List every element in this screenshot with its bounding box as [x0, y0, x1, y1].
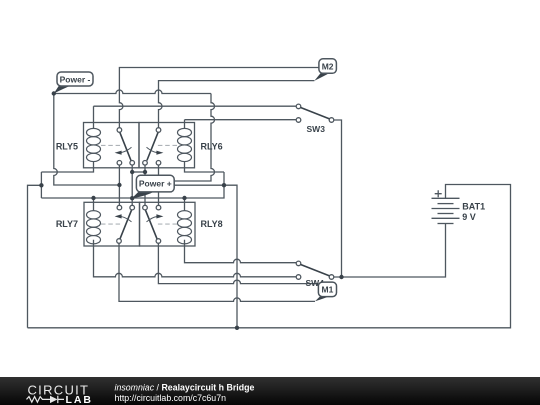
wire Power+ L1 left segment y=172 RLY5 coil bottom, hop over x=53.8 — [41, 162, 93, 172]
svg-text:M1: M1 — [321, 285, 333, 295]
footer CircuitLab logo — [28, 383, 92, 405]
svg-text:RLY7: RLY7 — [56, 219, 78, 229]
relay RLY5 dashed link — [101, 144, 122, 146]
wire RLY8 coil top pin to rail3 — [184, 198, 186, 211]
relay RLY6 box — [139, 123, 195, 168]
junction node RLY8 coil top on rail3 — [182, 196, 186, 200]
wire Power+ L1 mid segment y=172 — [132, 165, 145, 205]
footer logo resistor and diode glyph — [27, 396, 65, 403]
flag Power+ — [132, 175, 174, 198]
svg-text:RLY6: RLY6 — [201, 142, 223, 152]
switch SW3 — [296, 104, 334, 122]
relay RLY5 actuation arrow — [115, 147, 132, 155]
relay RLY6 coil — [178, 128, 192, 161]
relay RLY8 coil — [178, 211, 192, 244]
junction node battery minus to switch commons — [339, 275, 343, 279]
relay RLY6 dashed link — [157, 144, 178, 146]
junction node Power+ L1 at x=132 — [130, 170, 134, 174]
wire Power+ stub to outer loop x=28 — [28, 185, 42, 327]
flag M1 — [315, 282, 337, 301]
wire M2 net: RLY6 common up to y=80.5 then right to M2 tail — [159, 81, 315, 128]
junction node Power+ L1 at x=145 — [143, 170, 147, 174]
relay RLY7 terminals — [117, 205, 135, 243]
wire Power+ rail3 y=199 bottom rail of middle band — [41, 172, 224, 198]
relay RLY5 box — [84, 123, 140, 168]
junction node Power+ right ladder — [222, 183, 226, 187]
svg-text:9 V: 9 V — [462, 212, 476, 222]
switch SW4 — [296, 261, 334, 279]
wire SW3 common to junction x=341.5 — [334, 120, 342, 277]
wire RLY7 coil top pin to rail3 — [93, 198, 95, 211]
relay RLY8 actuation arrow — [147, 214, 164, 222]
wire RLY6 coil top to SW3 bottom throw y=119.7 — [185, 120, 297, 129]
relay RLY5 switch arm — [120, 132, 131, 160]
wire battery minus y=277 — [334, 224, 446, 278]
relay RLY8 box — [140, 202, 196, 246]
wire RLY8 common to M1 flag edge y=283.6, hop over x=237 — [158, 243, 318, 283]
relay RLY7 coil — [87, 211, 101, 244]
relay RLY8 terminals — [143, 205, 161, 243]
footer bar — [0, 377, 540, 405]
wire RLY8 coil bottom to SW4 top throw y=262.7, hop over x=237 — [185, 240, 297, 263]
wire M2 net: RLY5 common up to y=67.5 then right to M2 flag — [119, 68, 319, 128]
wire throw chain x=158.5 RLY6 to RLY8 — [158, 165, 160, 205]
relay RLY8 switch arm — [145, 210, 157, 239]
junction node RLY7 coil top on rail3 — [91, 196, 95, 200]
svg-text:BAT1: BAT1 — [462, 202, 485, 212]
wire battery plus loop: top wire right vertical bottom rail — [28, 185, 511, 328]
junction node Power- to throw chain x=119 — [117, 183, 121, 187]
relay RLY5 terminals — [117, 128, 134, 165]
svg-text:RLY8: RLY8 — [201, 219, 223, 229]
junction node Power+ flag attach on rail3 — [130, 196, 134, 200]
relay RLY7 actuation arrow — [115, 214, 132, 222]
svg-text:SW3: SW3 — [307, 124, 326, 134]
svg-text:insomniac / Realaycircuit h Br: insomniac / Realaycircuit h Bridge — [115, 383, 255, 393]
relay RLY7 switch arm — [120, 210, 132, 239]
wire RLY7 coil bottom to SW4 lower throw y=277, hops over x=118.9,x=158.4,x=237 — [94, 240, 297, 277]
svg-text:Power +: Power + — [139, 179, 172, 189]
relay RLY7 dashed link — [101, 223, 122, 225]
wire net Power- left vertical x=53.8 with hop over L1 rail — [54, 94, 120, 186]
wire Power+ flag wire y=185.2 with corner down x=237 — [174, 185, 237, 328]
junction node Power- flag attach — [52, 91, 56, 95]
relay RLY6 terminals — [143, 128, 161, 165]
svg-text:M2: M2 — [322, 61, 334, 71]
wire RLY7 common to M1 tail y=301.4, hop over x=237 — [119, 243, 315, 301]
wire net Power- right vertical x=211 with hops, to mid rail y=181 — [159, 94, 215, 182]
relay RLY6 switch arm — [147, 132, 158, 160]
wire net Power- top: flag to corner x=211, hops over x=119.4 and x=158.5 — [54, 90, 211, 94]
wire RLY5 coil top to SW3 top throw y=106.2 — [94, 106, 297, 128]
svg-text:http://circuitlab.com/c7c6u7n: http://circuitlab.com/c7c6u7n — [115, 393, 227, 403]
junction node Power+ drop on bottom rail — [235, 326, 239, 330]
wire Power+ left ladder vertical x=41.4 — [40, 172, 42, 198]
flag M2 — [314, 59, 336, 81]
svg-text:LAB: LAB — [66, 394, 92, 405]
junction node Power+ left ladder — [39, 183, 43, 187]
flag Power- — [54, 72, 93, 94]
wire Power+ L1 right segment y=172 RLY6 coil bottom — [185, 162, 225, 172]
relay RLY6 actuation arrow — [147, 147, 164, 155]
svg-text:RLY5: RLY5 — [56, 142, 78, 152]
relay RLY5 coil — [87, 128, 101, 161]
relay RLY7 box — [84, 202, 140, 246]
relay RLY8 dashed link — [157, 223, 178, 225]
svg-text:Power -: Power - — [60, 74, 91, 84]
wire throw chain x=119.4 RLY5 to RLY7 — [118, 165, 120, 205]
battery BAT1 — [432, 190, 460, 223]
